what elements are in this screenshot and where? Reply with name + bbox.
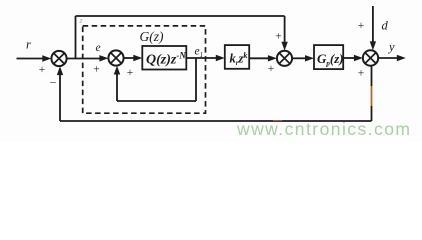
- svg-text:y: y: [387, 40, 395, 54]
- svg-text:www.cntronics.com: www.cntronics.com: [236, 119, 411, 139]
- block Gp(z): [314, 45, 344, 69]
- svg-text:r: r: [26, 38, 31, 52]
- wire feedback orange segment: [371, 86, 373, 106]
- dashed box G(z): [83, 26, 206, 113]
- wire S2 to Q block: [124, 55, 143, 61]
- artifact red tick on bottom line: [273, 120, 282, 122]
- wire Q to k block: [186, 55, 225, 61]
- block Q(z)z^-N: [142, 46, 186, 70]
- svg-text:+: +: [93, 64, 100, 76]
- wire S3 to Gp block: [292, 55, 314, 61]
- svg-text:d: d: [382, 19, 389, 33]
- wire feedback down from S4: [371, 66, 373, 86]
- wire d input: [370, 6, 376, 50]
- svg-text:+: +: [358, 20, 365, 32]
- wire feedback down lower: [371, 106, 373, 121]
- wire r input: [17, 55, 52, 61]
- summing junction S1: [51, 51, 66, 66]
- wire feedback bottom line: [60, 120, 372, 122]
- wire inner loop up into S2: [114, 66, 120, 101]
- block kr z^k: [225, 45, 249, 69]
- svg-text:+: +: [358, 68, 365, 80]
- wire inner loop down: [195, 58, 197, 101]
- wire top line drop into S3: [281, 16, 287, 51]
- wire feedback up into S1: [57, 66, 63, 121]
- svg-text:e: e: [96, 42, 101, 54]
- wire branch up to top line: [75, 16, 77, 59]
- svg-text:+: +: [268, 63, 275, 75]
- svg-text:+: +: [127, 67, 134, 79]
- wire Gp to S4: [343, 55, 363, 61]
- wire inner loop bottom: [117, 100, 196, 102]
- svg-text:Gp(z): Gp(z): [317, 51, 344, 68]
- summing junction S4: [363, 50, 378, 65]
- svg-text:+: +: [275, 31, 282, 43]
- summing junction S3: [277, 51, 292, 66]
- wire top line: [76, 15, 285, 17]
- wire S1 to S2: [67, 55, 109, 61]
- wire output y: [378, 55, 406, 61]
- svg-text:+: +: [39, 64, 46, 76]
- wire k block to S3: [249, 55, 277, 61]
- summing junction S2: [108, 50, 123, 65]
- svg-text:G(z): G(z): [140, 29, 164, 44]
- svg-text:−: −: [50, 76, 57, 90]
